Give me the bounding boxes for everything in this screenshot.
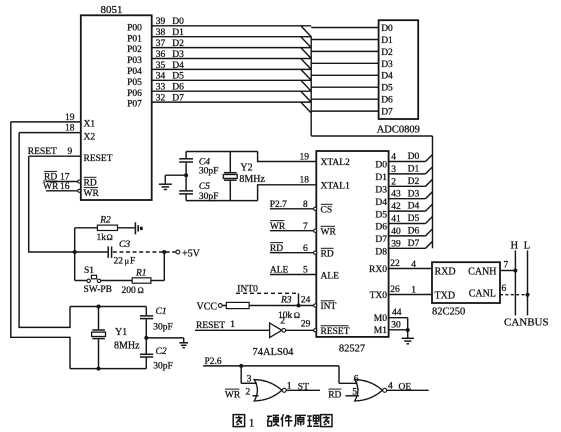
crystal Y2 body [223,175,237,179]
svg-text:D8: D8 [375,248,387,258]
svg-text:P01: P01 [127,34,142,44]
wire INT0 down to node [298,293,300,305]
bubble WR 82527 [314,229,317,232]
wire P2.6 to gate1 [240,366,242,383]
svg-text:9: 9 [68,147,73,157]
crystal Y1 bottom plate [92,338,105,340]
wire M0 [389,317,408,319]
svg-text:RD: RD [321,250,334,260]
wire 82527 pin 4 data [389,161,426,163]
svg-text:37: 37 [156,39,166,49]
caption: 图1 硬件原理图 [233,415,244,427]
capacitor C2 bottom plate [140,356,153,358]
wire to C4 [185,152,187,159]
svg-text:30pF: 30pF [153,323,173,333]
svg-text:ST: ST [298,383,309,393]
svg-text:R2: R2 [99,215,111,225]
junction CANL-L [526,293,530,297]
svg-text:Ω: Ω [294,310,300,320]
svg-text:D0: D0 [375,161,387,171]
capacitor C2 top plate [140,353,153,355]
wire P02/D2 data line 8051 pin 37 to ADC0809 D2 [152,47,312,49]
wire P04/D4 data line 8051 pin 35 to ADC0809 D4 [152,68,312,70]
svg-text:D5: D5 [375,210,387,220]
svg-text:D0: D0 [381,24,393,34]
svg-text:ADC0809: ADC0809 [377,125,420,136]
svg-text:INT: INT [321,302,337,312]
svg-text:ALE: ALE [270,266,289,276]
crystal Y2 top plate [224,172,237,174]
junction reset node [73,250,77,254]
svg-text:D2: D2 [172,39,184,49]
horizontal data bus to 82527 [311,135,432,137]
svg-text:D4: D4 [381,72,393,82]
svg-text:P06: P06 [127,89,142,99]
vertical data bus [310,36,312,136]
svg-text:P05: P05 [127,78,142,88]
wire 82527 pin 41 data [389,223,426,225]
wire C5 to bottom [185,195,187,201]
stub WR 8051 pin 16 [46,190,78,192]
svg-text:D6: D6 [375,223,387,233]
svg-text:34: 34 [156,72,166,82]
svg-text:RESET: RESET [28,147,57,157]
ground stub Y2 [164,175,166,184]
junction Y1 bottom [97,367,101,371]
svg-text:D6: D6 [408,227,420,237]
svg-text:36: 36 [156,50,166,60]
wire gate1 input B [253,395,259,397]
svg-text:RESET: RESET [321,327,350,337]
svg-text:42: 42 [391,202,401,212]
wire RX0 to RXD [389,268,432,270]
wire to R2 [75,227,98,229]
svg-text:D7: D7 [172,94,184,104]
bubble gate2 output [383,388,387,392]
svg-text:8051: 8051 [101,4,123,16]
bubble INT [314,304,317,307]
svg-text:2: 2 [391,177,396,187]
svg-text:D6: D6 [172,83,184,93]
wire P2.6 to gate2 [338,366,340,383]
capacitor C1 top plate [140,315,153,317]
svg-text:RXD: RXD [435,267,456,278]
wire gate2 input B [346,395,360,397]
svg-text:16: 16 [60,182,70,192]
svg-text:30: 30 [391,321,401,331]
svg-text:M0: M0 [374,314,387,324]
svg-text:43: 43 [391,190,401,200]
svg-text:4: 4 [391,153,396,163]
svg-text:D0: D0 [172,17,184,27]
svg-text:38: 38 [156,28,166,38]
wire to Y1 crystal [98,307,100,330]
bus exit diagonal 4 [426,204,433,211]
svg-text:7: 7 [504,261,509,271]
wire X2 from 8051 pin 18 [19,132,81,134]
svg-text:D7: D7 [375,235,387,245]
svg-text:RX0: RX0 [369,265,387,275]
ADC U-ADC0809 body [379,20,419,119]
svg-text:D7: D7 [408,239,420,249]
wire R1 up to +5V node [163,252,165,281]
svg-text:8: 8 [303,200,308,210]
svg-text:D3: D3 [375,186,387,196]
svg-text:82C250: 82C250 [432,307,465,318]
svg-text:8MHz: 8MHz [239,174,265,185]
svg-text:26: 26 [390,285,400,295]
svg-text:33: 33 [156,83,166,93]
junction CANH-H [513,269,517,273]
bubble gate1 output [282,388,286,392]
svg-text:44: 44 [392,308,402,318]
svg-text:X2: X2 [84,133,96,143]
svg-text:D6: D6 [381,96,393,106]
wire P03/D3 data line 8051 pin 36 to ADC0809 D3 [152,58,312,60]
svg-text:19: 19 [65,113,75,123]
svg-text:3: 3 [391,165,396,175]
svg-text:Y1: Y1 [115,327,127,338]
bus exit diagonal 6 [426,229,433,236]
wire M0-M1 join [407,318,409,331]
wire Y1 loop bottom [70,368,146,370]
svg-text:WR: WR [43,182,59,192]
svg-text:D1: D1 [381,36,393,46]
svg-text:D1: D1 [408,165,420,175]
svg-text:P2.7: P2.7 [270,200,287,210]
svg-text:74ALS04: 74ALS04 [253,347,295,358]
wire P2.6 [203,365,339,367]
crystal Y1 body [92,332,106,336]
wire to S1 [75,280,87,282]
junction C4-C5 ground node [184,173,188,177]
svg-text:RESET: RESET [84,154,113,164]
svg-text:39: 39 [391,239,401,249]
capacitor C3 right plate [111,246,113,258]
svg-text:SW-PB: SW-PB [84,285,113,295]
svg-text:WR: WR [270,222,286,232]
capacitor C5 bottom plate [179,193,193,195]
ground Y2 bar1 [159,183,172,185]
wire P07/D7 data line 8051 pin 32 to ADC0809 D7 [152,101,312,103]
symbol tall bar [134,222,136,234]
stub ALE [270,274,316,276]
svg-text:XTAL2: XTAL2 [321,158,351,168]
stub RD 8051 pin 17 [46,181,78,183]
stub P2.7 to CS [270,208,314,210]
bus exit diagonal 0 [426,155,433,162]
bus exit diagonal 7 [426,241,433,248]
svg-text:6: 6 [303,244,308,254]
NOR gate G1 [254,380,282,401]
junction INT0 node [297,304,301,308]
svg-text:1k: 1k [97,233,107,243]
wire to C1 [145,307,147,316]
bus exit diagonal 1 [426,167,433,174]
wire P00/D0 data line 8051 pin 39 to ADC0809 D0 [152,25,312,27]
svg-text:P04: P04 [127,67,142,77]
bubble RESET 82527 [314,329,317,332]
ground bar1 [179,342,188,344]
svg-text:2: 2 [280,317,285,327]
dashed wire INT0 [236,292,299,294]
svg-text:3: 3 [247,374,252,384]
switch S1 button [91,275,96,279]
svg-text:XTAL1: XTAL1 [321,182,351,192]
svg-text:D3: D3 [408,189,420,199]
svg-text:8MHz: 8MHz [114,341,140,352]
svg-text:F: F [130,257,135,267]
CAN controller U-82527 body [316,151,388,337]
junction P2.6 branch [239,364,243,368]
svg-text:ALE: ALE [321,271,340,281]
svg-text:18: 18 [300,176,310,186]
vertical data bus right [432,136,434,248]
dashed wire CANL to L [500,294,528,296]
wire CANBUS L line [527,250,529,315]
svg-text:WR: WR [225,390,241,400]
wire TX0 to TXD [389,294,432,296]
svg-text:30pF: 30pF [199,166,219,176]
wire Y2 bottom lead [229,181,231,201]
bus exit diagonal 5 [426,217,433,224]
capacitor C4 top plate [179,158,193,160]
svg-text:D4: D4 [375,198,387,208]
wire OE output [387,389,429,391]
junction M ground [406,328,410,332]
svg-text:P02: P02 [127,45,142,55]
wire Y2 loop top [186,151,258,153]
svg-text:D5: D5 [172,72,184,82]
NOR gate G2 [355,380,383,401]
svg-text:D2: D2 [381,48,393,58]
svg-text:+5V: +5V [182,248,201,259]
svg-text:M1: M1 [374,326,387,336]
svg-text:30pF: 30pF [199,192,219,202]
svg-text:OE: OE [399,383,412,393]
svg-text:40: 40 [391,227,401,237]
bubble WR pin [78,189,81,192]
bus exit diagonal 2 [426,179,433,186]
svg-text:24: 24 [301,296,311,306]
svg-text:D3: D3 [381,60,393,70]
wire M1 [389,329,408,331]
ground M bar1 [402,337,414,339]
svg-text:D1: D1 [172,28,184,38]
switch S1 contact right [97,279,100,282]
bubble RD 82527 [314,251,317,254]
svg-text:35: 35 [156,61,166,71]
wire 82527 pin 40 data [389,235,426,237]
svg-text:CANL: CANL [469,289,496,300]
inverter U-74ALS04 triangle [270,323,282,338]
wire P05/D5 data line 8051 pin 34 to ADC0809 D5 [152,79,312,81]
ground stub M [407,330,409,338]
svg-text:30pF: 30pF [153,361,173,371]
junction +5V node [162,250,166,254]
svg-text:1: 1 [249,417,255,429]
junction C1-C2 ground node [144,336,148,340]
svg-text:μ: μ [125,256,130,266]
svg-text:C1: C1 [156,307,167,317]
wire gate2 input A [339,382,358,384]
svg-text:H: H [511,241,519,252]
symbol short bar [137,225,139,231]
svg-text:32: 32 [156,94,166,104]
svg-text:RD: RD [328,390,341,400]
svg-text:R3: R3 [280,295,292,305]
svg-text:17: 17 [60,173,70,183]
svg-text:TXD: TXD [435,291,456,302]
wire P06/D6 data line 8051 pin 33 to ADC0809 D6 [152,90,312,92]
resistor R3 [226,302,249,308]
wire X1 to crystal Y1 bottom [11,122,70,369]
svg-text:C2: C2 [156,347,167,357]
stub RD to 82527 [270,252,314,254]
svg-text:CANBUS: CANBUS [504,316,549,328]
wire 82527 pin 2 data [389,185,426,187]
ground bar2 [181,344,187,346]
svg-text:P03: P03 [127,56,142,66]
svg-text:D4: D4 [172,61,184,71]
svg-text:29: 29 [301,320,311,330]
svg-text:4: 4 [411,260,416,270]
wire C4 to C5 [185,163,187,191]
bubble CS [314,207,317,210]
capacitor C3 left plate [107,246,109,258]
svg-text:D7: D7 [381,108,393,118]
svg-text:82527: 82527 [339,344,365,355]
resistor R2 [97,225,117,230]
wire X2 to crystal Y1 top [19,133,70,328]
svg-text:C5: C5 [199,182,210,192]
svg-text:D5: D5 [381,84,393,94]
crystal Y1 top plate [92,329,105,331]
capacitor C4 bottom plate [179,161,193,163]
svg-text:D0: D0 [408,152,420,162]
stub WR to 82527 [270,230,314,232]
svg-text:WR: WR [84,189,100,199]
svg-text:Y2: Y2 [240,163,252,174]
CAN transceiver U-82C250 body [432,262,500,303]
wire to ground Y2 [165,174,186,176]
ground M bar2 [404,340,411,342]
wire CANBUS H line [514,250,516,315]
svg-text:TX0: TX0 [370,291,388,301]
svg-text:VCC: VCC [197,301,218,312]
crystal Y2 bottom plate [224,179,237,181]
wire Y1 loop top [70,306,146,308]
terminal VCC circle [218,304,222,308]
bus exit diagonal 3 [426,192,433,199]
svg-text:5: 5 [303,266,308,276]
wire Y2 to XTAL1 [258,185,317,201]
wire R3 to INT [249,305,314,307]
svg-text:C3: C3 [119,240,130,250]
svg-text:1: 1 [411,285,416,295]
svg-text:D3: D3 [172,50,184,60]
svg-text:RD: RD [84,179,97,189]
wire CANH to H [500,270,515,272]
svg-text:19: 19 [300,152,310,162]
wire RESET to inverter [195,329,270,331]
wire S1 to R1 [101,280,133,282]
dashed wire C3 to +5V [113,251,176,253]
wire to C3 [75,251,108,253]
wire to ground [146,337,183,339]
svg-text:S1: S1 [84,266,94,276]
wire R2 to bar symbol [118,227,135,229]
wire Y2 to XTAL2 [258,152,317,162]
ground stub [183,338,185,343]
wire R1 right [151,280,164,282]
svg-text:1: 1 [230,320,235,330]
wire Y2 loop bottom [186,200,258,202]
svg-text:CS: CS [321,206,333,216]
bubble inverter output [282,328,286,332]
terminal +5V circle [176,250,180,254]
svg-text:39: 39 [156,17,166,27]
wire Y1 to bottom [98,339,100,368]
wire ST output [286,389,320,391]
svg-text:RD: RD [270,244,283,254]
wire RESET to 8051 pin 9 [29,155,81,157]
wire Y2 top lead [229,152,231,173]
wire C2 to bottom [145,358,147,369]
svg-text:L: L [524,241,530,252]
wire gate1 input A [241,382,257,384]
svg-text:22: 22 [114,257,124,267]
wire P01/D1 data line 8051 pin 38 to ADC0809 D1 [152,36,312,38]
svg-text:P07: P07 [127,100,142,110]
wire C1 to C2 [145,319,147,354]
capacitor C5 top plate [179,190,193,192]
switch S1 contact left [87,279,90,282]
wire inverter to RESET pin [286,329,314,331]
wire 82527 pin 42 data [389,210,426,212]
ground Y2 bar3 [164,189,167,191]
svg-text:41: 41 [391,215,401,225]
svg-text:200: 200 [122,286,137,296]
ground Y2 bar2 [162,186,170,188]
ground M bar3 [407,343,410,345]
wire RESET down to RC network [29,156,74,252]
svg-text:P00: P00 [127,23,142,33]
svg-text:2: 2 [246,388,251,398]
svg-text:Ω: Ω [107,232,113,242]
svg-text:18: 18 [65,124,75,134]
svg-text:WR: WR [321,228,337,238]
svg-text:4: 4 [388,382,393,392]
svg-text:1: 1 [287,382,292,392]
wire reset net left vertical [74,228,76,281]
svg-text:CANH: CANH [468,267,496,278]
resistor R1 [132,278,151,283]
svg-text:Ω: Ω [138,285,144,295]
wire 82527 pin 3 data [389,173,426,175]
wire X1 from 8051 pin 19 [11,121,81,123]
svg-text:D4: D4 [408,202,420,212]
svg-text:D1: D1 [375,173,387,183]
svg-text:RESET: RESET [196,321,225,331]
svg-text:6: 6 [502,284,507,294]
wire 82527 pin 43 data [389,198,426,200]
wire VCC to R3 [222,305,226,307]
svg-text:7: 7 [303,222,308,232]
svg-text:D2: D2 [408,177,420,187]
svg-text:D5: D5 [408,214,420,224]
wire 82527 pin 39 data [389,247,426,249]
